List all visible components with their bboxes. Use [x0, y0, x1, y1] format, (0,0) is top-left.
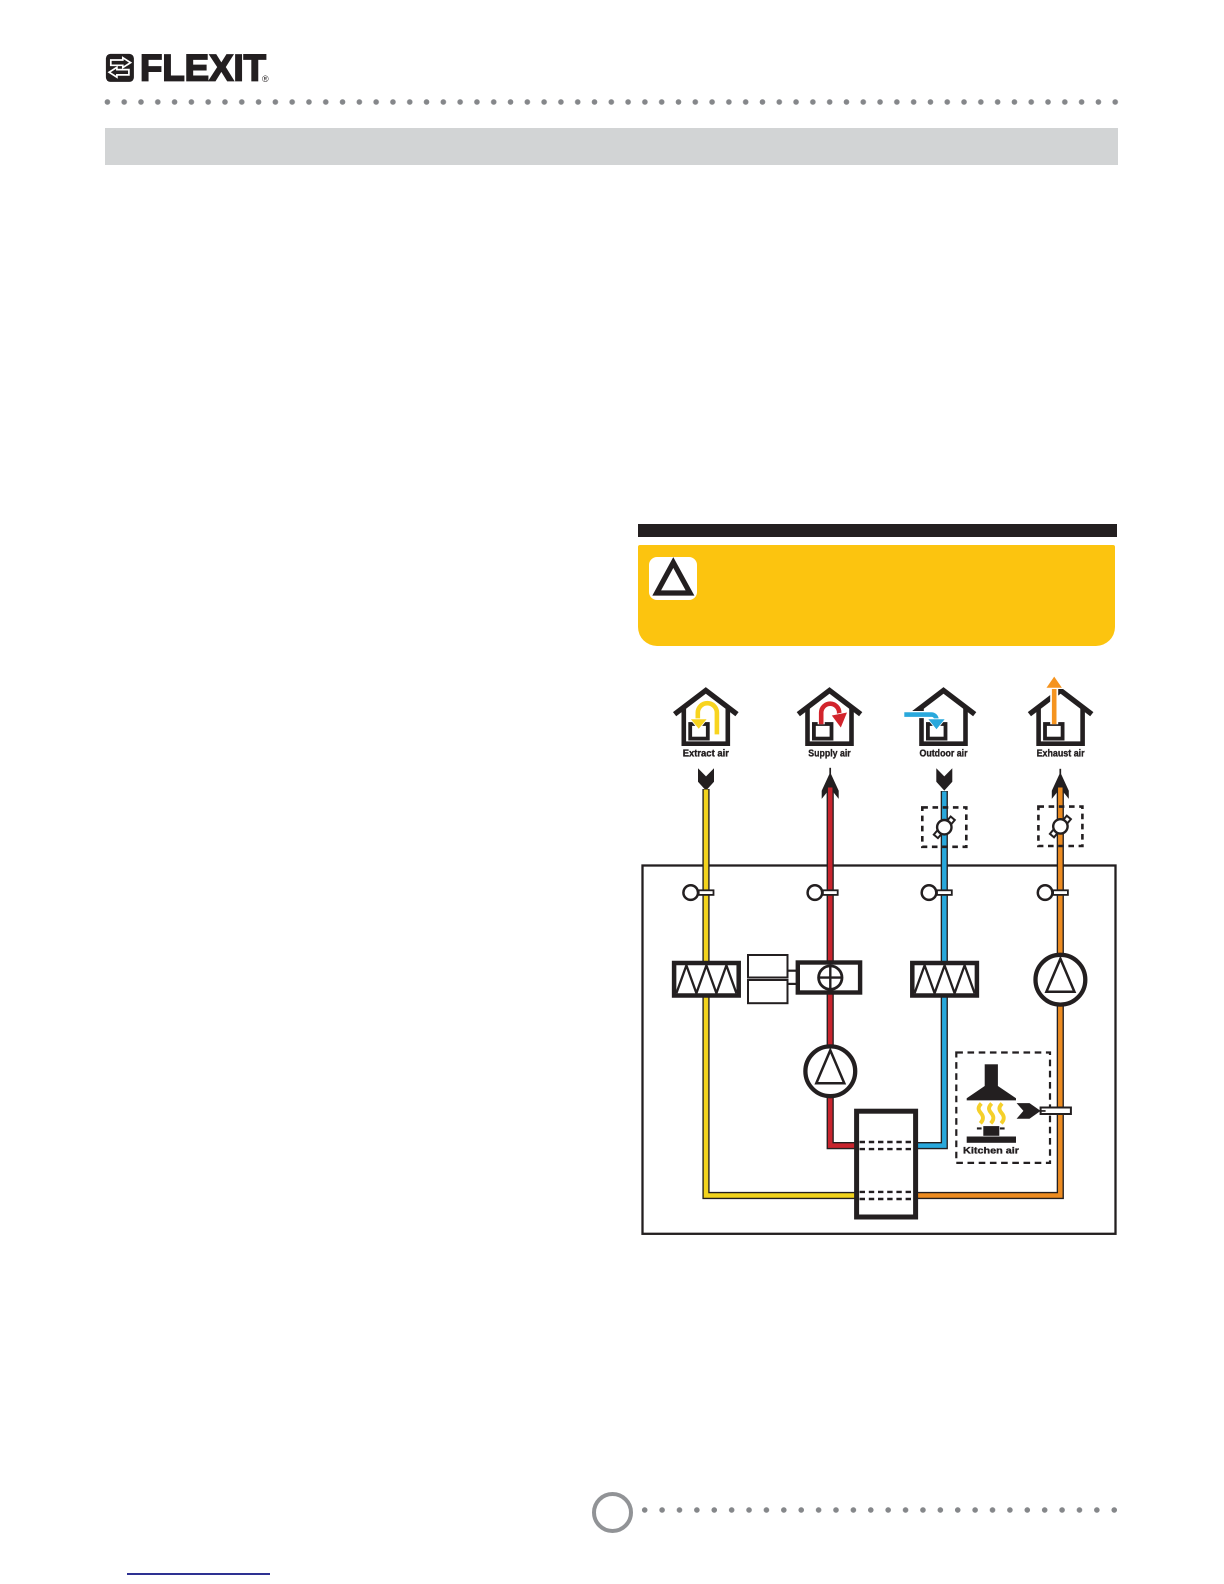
warning icon white square [649, 557, 698, 601]
warning triangle [649, 557, 698, 601]
sensor exhaust [1038, 885, 1068, 900]
exhaust arrow orange [1050, 687, 1058, 725]
filter extract [674, 963, 739, 996]
house Supply air [798, 690, 860, 743]
page number circle [592, 1492, 633, 1533]
fan supply [805, 1046, 855, 1096]
house Exhaust air [1029, 690, 1091, 743]
exhaust duct orange [915, 787, 1060, 1196]
header dotted rule [99, 99, 1124, 105]
logo icon black rounded square [106, 54, 134, 82]
extract duct yellow [706, 789, 857, 1196]
extract arrow yellow [698, 703, 717, 734]
kitchen hood [985, 1064, 998, 1087]
gray header bar [105, 128, 1118, 165]
heat exchanger [857, 1111, 916, 1217]
heater control box A [748, 955, 788, 978]
footer blue line [127, 1573, 270, 1576]
footer dotted rule [636, 1507, 1123, 1513]
duct arrow down extract [698, 768, 714, 790]
duct arrow up supply [829, 768, 831, 774]
house Outdoor air [912, 690, 974, 743]
duct arrow down outdoor [936, 768, 952, 790]
house Extract air [675, 690, 737, 743]
filter outdoor [912, 963, 977, 996]
outdoor duct blue [915, 791, 944, 1146]
supply arrow red [821, 704, 839, 725]
svg-text:Kitchen air: Kitchen air [963, 1145, 1019, 1155]
svg-text:Extract air: Extract air [683, 748, 729, 759]
sensor extract [683, 885, 713, 900]
warning yellow box [638, 545, 1115, 646]
duct arrow up exhaust [1059, 769, 1061, 774]
logo arrow left [109, 67, 129, 77]
logo arrow right [111, 58, 131, 68]
svg-text:Outdoor air: Outdoor air [920, 748, 968, 759]
kitchen pot [983, 1126, 999, 1136]
svg-text:Exhaust air: Exhaust air [1037, 748, 1085, 759]
fan exhaust [1036, 955, 1086, 1005]
outdoor arrow blue [904, 715, 936, 720]
warning black top bar [638, 524, 1117, 537]
kitchen arrow [1017, 1103, 1041, 1119]
sensor outdoor [922, 885, 952, 900]
damper exhaust [1038, 807, 1082, 846]
kitchen stove [967, 1137, 1016, 1143]
damper outdoor [922, 807, 966, 846]
kitchen duct stub [1041, 1108, 1071, 1115]
FLEXIT logo [0, 0, 300, 100]
kitchen steam [979, 1104, 983, 1124]
svg-text:Supply air: Supply air [808, 748, 850, 759]
supply duct red [830, 787, 856, 1146]
heating battery [798, 963, 860, 993]
heater control box B [748, 980, 788, 1003]
sensor supply [808, 885, 838, 900]
kitchen air dashed box [956, 1053, 1050, 1163]
unit cabinet box [643, 866, 1116, 1234]
heater connector wires [788, 970, 800, 972]
